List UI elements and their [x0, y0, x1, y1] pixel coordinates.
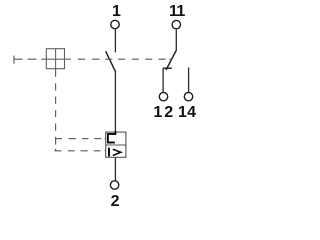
aux changeover contact blade [166, 50, 176, 70]
terminal circle 14 [184, 92, 192, 100]
main contact blade (pole 1-2) [106, 51, 115, 70]
svg-text:1: 1 [112, 3, 121, 20]
terminal circle 2 [110, 181, 118, 189]
wire to terminal 14 [188, 68, 190, 93]
svg-text:12: 12 [153, 104, 175, 121]
terminal circle 11 [172, 20, 180, 28]
svg-text:14: 14 [178, 104, 196, 121]
wire from terminal 1 to main contact [114, 29, 116, 52]
mechanical linkage left end tick [13, 56, 15, 64]
aux NC fixed contact tick (12 side) [163, 67, 172, 69]
thermal overload element (hook) [108, 131, 116, 143]
wire from terminal 11 to aux contact [175, 29, 177, 50]
wire to terminal 12 [162, 68, 164, 92]
svg-text:2: 2 [111, 193, 120, 210]
terminal circle 12 [159, 92, 167, 100]
magnetic overcurrent symbol > [113, 149, 121, 155]
actuator cross vertical [55, 49, 57, 69]
terminal circle 1 [111, 20, 119, 28]
mechanical linkage horizontal dashed line y=59.2 [14, 58, 172, 60]
manual actuator box [46, 49, 64, 69]
linkage to thermal trip dashed line y=138.6 [55, 138, 106, 140]
trip unit box [106, 132, 126, 157]
trip unit box divider [106, 144, 126, 146]
magnetic overcurrent symbol I [108, 148, 110, 157]
svg-text:1: 1 [176, 3, 185, 20]
linkage to magnetic trip dashed line y=150.8 [55, 150, 106, 152]
mechanical linkage vertical dashed line x=55.6 [55, 69, 57, 151]
wire from trip unit to terminal 2 [114, 157, 116, 180]
wire from main contact to trip unit [114, 70, 116, 132]
